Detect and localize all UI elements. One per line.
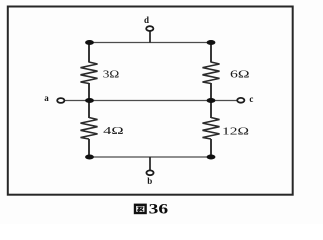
svg-text:6Ω: 6Ω xyxy=(230,69,250,80)
svg-text:3Ω: 3Ω xyxy=(103,70,120,81)
svg-text:4Ω: 4Ω xyxy=(103,126,124,137)
svg-text:12Ω: 12Ω xyxy=(222,126,249,137)
svg-text:36: 36 xyxy=(149,201,169,217)
svg-text:c: c xyxy=(249,94,253,104)
svg-text:d: d xyxy=(144,15,149,25)
svg-text:b: b xyxy=(147,176,152,186)
svg-text:a: a xyxy=(44,93,49,103)
